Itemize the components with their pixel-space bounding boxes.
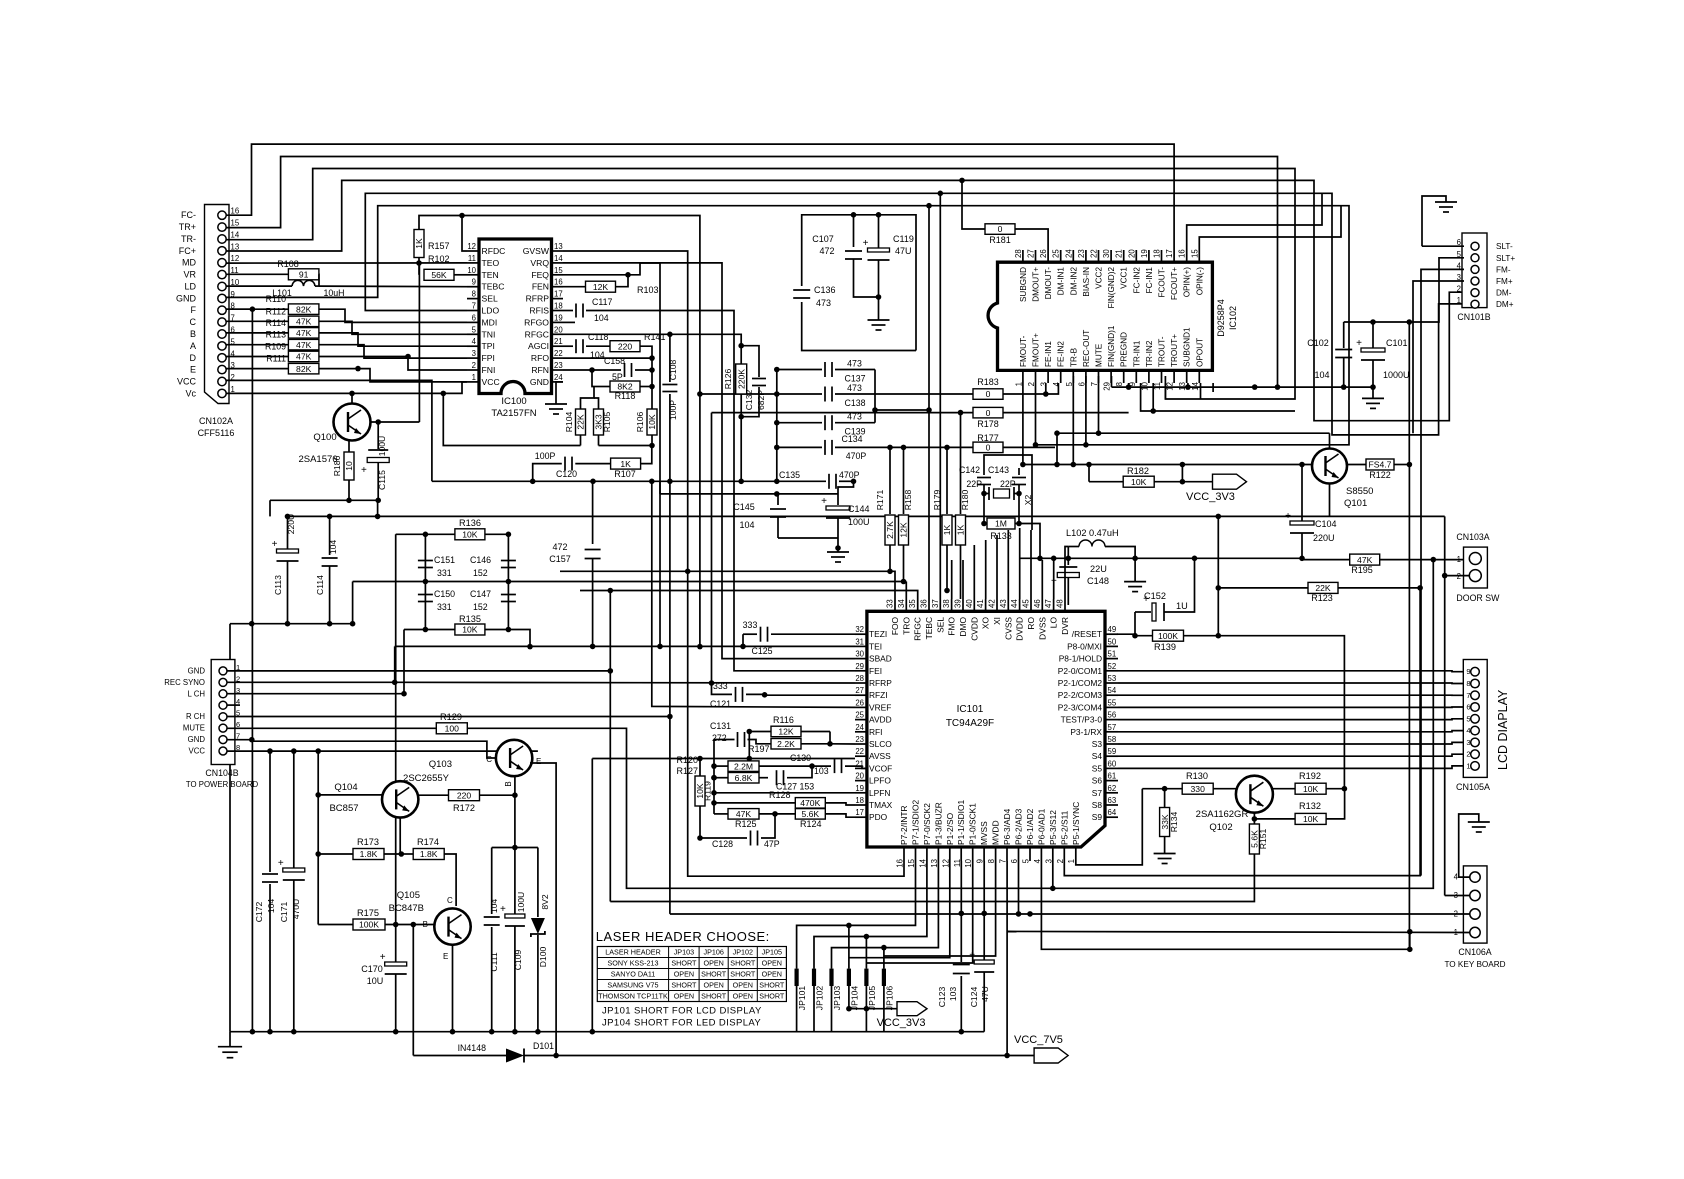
svg-text:45: 45 [1022,599,1031,608]
svg-text:R118: R118 [615,391,636,401]
resistor R180 1K [960,413,962,514]
capacitor C131 272 [714,739,735,741]
svg-text:LASER HEADER CHOOSE:: LASER HEADER CHOOSE: [596,929,770,944]
svg-text:47P: 47P [764,839,780,849]
svg-text:22: 22 [554,349,563,358]
CN104B pin 3 L CH [219,690,227,698]
wire CN104B pin2 REC SYNO to FEI [227,681,395,683]
svg-text:104: 104 [489,899,499,914]
fuse resistor R122 FS4.7 [1347,464,1367,466]
IC100 pin 23 RFN [552,369,564,371]
svg-text:R132: R132 [1299,801,1321,811]
CN102A pin 13 (FC+) [218,247,226,255]
resistor R109 47K [226,356,289,358]
svg-text:RFIS: RFIS [529,306,549,316]
wire rail y444 segment [1036,444,1184,446]
svg-text:C151: C151 [434,555,455,565]
svg-text:C102: C102 [1307,338,1329,348]
CN102A pin 2 (VCC) [218,377,226,385]
svg-text:P8-0/MXI: P8-0/MXI [1067,641,1102,651]
connector CN105A [1463,660,1487,778]
svg-text:24: 24 [1064,249,1073,258]
IC101 pin 30 SBAD [855,658,867,660]
svg-text:20: 20 [554,325,563,334]
svg-text:FIN(GND)1: FIN(GND)1 [1107,325,1116,367]
svg-text:56K: 56K [431,270,447,280]
IC101 pin 38 FMO [951,599,953,611]
IC102 pin 7 MUTE [1098,370,1100,383]
IC102 pin 3 FE-IN1 [1047,370,1049,383]
svg-text:GND: GND [188,666,206,675]
svg-text:37: 37 [931,599,940,608]
svg-text:0: 0 [986,443,991,453]
inductor L101 10uH [226,285,292,287]
wire CN104B pin4 stub [227,704,240,706]
svg-text:12: 12 [231,254,240,263]
IC102 pin 4 FE-IN2 [1060,370,1062,383]
IC101 pin 32 TEZI [855,633,867,635]
wire Q101 collector up [1329,433,1331,448]
IC101 pin 41 XO [985,599,987,611]
svg-text:61: 61 [1108,772,1117,781]
capacitor C128 47P [700,837,747,839]
svg-text:CN105A: CN105A [1456,782,1490,792]
resistor R178 0 [712,412,974,414]
svg-text:19: 19 [554,313,563,322]
svg-text:+: + [278,858,284,869]
svg-text:103: 103 [948,987,958,1002]
ground top right [1422,196,1446,246]
svg-text:62: 62 [1108,784,1117,793]
svg-text:2.2K: 2.2K [777,739,795,749]
wire MD pin12 to TEO [226,262,467,264]
svg-text:IC102: IC102 [1228,306,1238,330]
CN101B pin 6 SLT- [1471,242,1479,250]
diode D101 IN4148 line [413,1055,506,1057]
IC100 pin 4 TPI [467,345,479,347]
resistor R133 1M [987,518,1015,529]
wire CN103A col down to CN106A pin3 [1444,576,1446,896]
wire AVSS line [592,758,855,760]
wire RFGC pin20 to R126 col [563,334,741,345]
CN104B pin 1 GND [219,667,227,675]
IC102 pin 14 OPOUT [1198,370,1200,383]
svg-text:E: E [443,952,448,961]
svg-text:Q105: Q105 [397,890,420,901]
wire bus pin15 [226,157,1278,388]
svg-text:OPEN: OPEN [674,992,694,1001]
svg-text:C138: C138 [844,398,865,408]
resistor R110 82K [226,308,289,310]
power flag VCC_3V3 bottom [897,1002,927,1016]
CN102A pin 7 (C) [218,318,226,326]
crystal X2 caps C142 C143 [983,468,985,475]
rail vcc y516 [288,515,1445,517]
svg-text:C172: C172 [254,902,264,923]
resistor R123 22K [1218,587,1308,589]
svg-text:1K: 1K [620,459,631,469]
capacitor C157 472 [592,481,594,544]
microcontroller IC101 TC94A29F body [867,611,1105,847]
IC100 pin 11 TEO [467,262,479,264]
IC102 pin 26 DMOUT- [1047,250,1049,262]
wire IC101 pin54 to CN105A pin7 [1118,694,1471,696]
svg-text:OPOUT: OPOUT [1195,338,1204,367]
svg-text:S7: S7 [1092,788,1103,798]
IC101 pin 39 DMO [962,599,964,611]
svg-text:R175: R175 [357,908,379,918]
svg-text:47K: 47K [736,809,752,819]
svg-text:7: 7 [472,302,476,311]
svg-text:S6: S6 [1092,776,1103,786]
svg-text:5: 5 [472,325,477,334]
svg-text:C119: C119 [893,234,914,244]
wire filter right column [507,534,509,629]
svg-text:DMOUT-: DMOUT- [1044,267,1053,300]
wire pin2 VCC down [226,380,432,481]
IC100 pin 24 GND [552,381,564,383]
IC102 pin 5 TR-B [1072,370,1074,383]
ground below L102 [1134,558,1136,581]
jumper JP106 [882,969,886,986]
svg-text:22P: 22P [966,479,982,489]
svg-text:TRO: TRO [901,617,911,635]
svg-text:TEI: TEI [869,641,882,651]
IC100 pin 19 RFGO [552,321,564,323]
IC102 pin 21 VCC1 [1123,250,1125,262]
IC101 pin 28 RFRP [855,682,867,684]
IC101 pin 49 /RESET [1105,633,1118,635]
svg-text:TR+: TR+ [179,222,196,232]
IC102 pin 22 VCC2 [1098,250,1100,262]
power flag VCC_3V3 [1213,474,1247,489]
svg-text:48: 48 [1056,599,1065,608]
svg-text:+: + [380,952,386,963]
capacitor C107 472 [853,215,855,247]
wire R127 column [713,766,715,814]
resistor R186 10 [348,439,350,452]
svg-text:SEL: SEL [935,617,945,633]
IC101 pin 37 SEL [939,599,941,611]
wire c136 bottom hook [802,302,916,351]
svg-text:R122: R122 [1369,470,1391,480]
wire IC102 pin2 stub down [1035,383,1037,445]
rail y494 [660,493,838,495]
svg-text:VCC_3V3: VCC_3V3 [877,1017,926,1029]
svg-text:0: 0 [998,224,1003,234]
svg-text:CN103A: CN103A [1456,532,1489,542]
svg-text:12K: 12K [593,282,609,292]
svg-text:P5-1/SYNC: P5-1/SYNC [1071,802,1081,845]
IC101 pin 21 VCOF [855,767,867,769]
svg-text:C111: C111 [489,952,499,971]
capacitor C127 153 [776,770,778,785]
svg-text:16: 16 [1178,249,1187,258]
svg-text:11: 11 [1153,382,1162,390]
svg-text:29: 29 [1103,382,1112,391]
CN102A pin 4 (D) [218,354,226,362]
svg-text:2: 2 [472,361,476,370]
CN102A pin 5 (A) [218,342,226,350]
svg-text:17: 17 [855,808,864,817]
svg-text:SHORT: SHORT [701,992,727,1001]
resistor R134 33K [1164,789,1166,808]
IC101 pin 23 SLCO [855,743,867,745]
svg-text:CN102A: CN102A [199,416,233,426]
svg-text:17: 17 [554,290,563,299]
IC102 pin 6 REC-OUT [1085,370,1087,383]
resistor R119 10K [699,759,701,777]
svg-text:333: 333 [743,620,758,630]
IC101 pin 36 TEBC [928,599,930,611]
wire filter left column [424,534,426,629]
svg-text:100U: 100U [377,436,387,457]
svg-text:AGCI: AGCI [528,341,549,351]
svg-text:TO KEY BOARD: TO KEY BOARD [1444,960,1505,969]
svg-text:VCC2: VCC2 [1095,267,1104,289]
IC101 pin 60 S5 [1105,767,1118,769]
svg-text:P1-3/BUZR: P1-3/BUZR [933,802,943,845]
svg-text:R158: R158 [903,490,913,511]
svg-text:1K: 1K [942,524,952,535]
IC101 pin 5 P6-1/AD2 [1029,847,1031,861]
svg-text:C144: C144 [848,504,870,514]
svg-text:SONY KSS-213: SONY KSS-213 [607,959,658,968]
svg-text:IN4148: IN4148 [458,1043,486,1053]
crystal X2 [994,489,1010,498]
svg-text:470P: 470P [846,451,867,461]
svg-text:220: 220 [457,790,472,800]
wire pin8 pin12 stubs [1128,383,1130,387]
IC101 pin 57 P3-1/RX [1105,731,1118,733]
IC100 pin 21 AGCI [552,345,564,347]
svg-text:FC+: FC+ [179,246,196,256]
transistor Q100 2SA1576 [334,404,371,441]
svg-text:OPEN: OPEN [762,970,782,979]
svg-text:XO: XO [981,617,991,630]
svg-text:SHORT: SHORT [671,959,697,968]
svg-text:R180: R180 [960,490,970,511]
CN105A pin 6 [1471,703,1480,712]
CN105A pin 9 [1471,667,1480,676]
resistor R182 10K [1089,481,1123,483]
wire IC101 pin59 to CN105A pin2 [1118,754,1471,756]
IC101 pin 45 RO [1030,599,1032,611]
capacitor C114 104 [329,516,331,555]
svg-text:FPI: FPI [482,353,495,363]
svg-text:RFO: RFO [531,353,549,363]
svg-text:SANYO DA11: SANYO DA11 [611,970,656,979]
IC101 pin 52 P2-0/COM1 [1105,670,1118,672]
wire R135 right exit [508,630,530,647]
svg-text:28: 28 [855,674,864,683]
svg-text:R141: R141 [644,332,666,342]
svg-text:472: 472 [552,542,567,552]
svg-text:R119: R119 [703,781,713,801]
wire R122 col x1409 down [1408,465,1410,950]
resistor R171 2.7K [889,447,891,514]
transistor Q104 BC857 [382,781,418,817]
svg-text:SLCO: SLCO [869,739,892,749]
wire R104 bottom rail [443,393,580,445]
IC102 pin 9 TR-IN1 [1135,370,1137,383]
IC101 pin 54 P2-2/COM3 [1105,694,1118,696]
wire ic102 pin11 L [1164,383,1166,399]
capacitor C151 331 [418,560,433,562]
svg-text:10: 10 [344,461,354,471]
wire bus y571 [560,571,895,599]
IC102 pin 23 BIAS-IN [1085,250,1087,262]
wire Q104 base [318,794,382,796]
svg-text:2SA1162GR: 2SA1162GR [1196,809,1249,820]
svg-text:25: 25 [1052,249,1061,258]
capacitor C118 104 [563,345,573,347]
wire vcc3v3 stub [1182,465,1212,482]
svg-text:473: 473 [847,359,862,369]
svg-text:C113: C113 [273,575,283,595]
svg-text:P7-2/INTR: P7-2/INTR [899,805,909,845]
transistor Q103 2SC2655Y [496,740,532,776]
svg-text:82K: 82K [296,364,312,374]
svg-text:C124: C124 [969,987,979,1008]
wire Q103 base down [514,776,516,914]
svg-text:VRQ: VRQ [530,258,549,268]
svg-text:AVDD: AVDD [869,715,892,725]
IC101 pin 51 P8-1/HOLD [1105,658,1118,660]
ground below IC100 [556,382,563,404]
capacitor C136 473 [793,289,810,291]
svg-text:1000U: 1000U [1383,370,1410,380]
svg-text:25: 25 [855,711,864,720]
svg-text:R183: R183 [977,377,999,387]
svg-text:2: 2 [1457,285,1461,294]
svg-text:TR-B: TR-B [1069,347,1078,367]
capacitor C170 10U electrolytic [395,925,397,963]
svg-text:C148: C148 [1087,576,1109,586]
IC102 pin 10 TR-IN2 [1148,370,1150,383]
wire IC101 pin53 to CN105A pin8 [1118,682,1471,685]
wire VR pin11 to R108 [226,273,289,275]
wire y623 right hook [352,582,354,624]
svg-text:F: F [191,305,197,315]
svg-text:2.2M: 2.2M [734,761,753,771]
svg-text:+: + [272,539,278,550]
svg-text:R107: R107 [614,469,636,479]
IC101 pin 58 S3 [1105,743,1118,745]
wire Q104 collector down [399,818,401,854]
wire pin29 to rail [1111,376,1113,387]
svg-text:+: + [1356,338,1362,349]
CN102A pin 14 (TR-) [218,235,226,243]
svg-text:SAMSUNG V75: SAMSUNG V75 [607,981,658,990]
svg-text:S8: S8 [1092,800,1103,810]
IC102 pin 16 OPIN(+) [1186,250,1188,262]
IC100 pin 22 RFO [552,357,564,359]
svg-text:41: 41 [976,599,985,608]
IC101 pin 56 TEST/P3-0 [1105,719,1118,721]
wire LPFN line [714,792,855,794]
svg-text:FEI: FEI [869,666,882,676]
wire JP104 to VCC_3V3 flag [849,1008,897,1010]
wire col 722 VRQ to SBAD [563,263,855,659]
capacitor C124 47U electrolytic [983,861,985,960]
svg-text:OPEN: OPEN [704,959,724,968]
capacitor C172 104 [269,751,271,872]
svg-text:27: 27 [1027,249,1036,258]
svg-text:SLT-: SLT- [1496,242,1513,251]
capacitor C144 100U electrolytic [838,481,854,505]
svg-text:1: 1 [472,373,476,382]
wire CN101B col down [1408,322,1410,465]
transistor Q101 S8550 [1312,449,1347,484]
svg-text:LD: LD [184,282,196,292]
svg-text:32: 32 [855,625,864,634]
svg-text:2: 2 [1457,572,1461,581]
wire CVDD col [973,545,975,599]
svg-text:RO: RO [1026,617,1036,630]
svg-text:1: 1 [1457,555,1461,564]
svg-text:SBAD: SBAD [869,654,892,664]
svg-text:R108: R108 [277,259,299,269]
IC101 pin 53 P2-1/COM2 [1105,682,1118,684]
svg-text:C108: C108 [668,360,678,381]
svg-text:R111: R111 [266,354,286,364]
wire R130 left L down to pin1 sync [1076,789,1143,865]
svg-text:DVSS: DVSS [1037,617,1047,640]
svg-text:C115: C115 [377,470,387,490]
wire col 940 SEL to bus line5 [939,193,941,599]
svg-text:JP104 SHORT FOR LED DISPLAY: JP104 SHORT FOR LED DISPLAY [602,1018,761,1029]
svg-text:47U: 47U [895,246,912,256]
CN104B pin 8 VCC [219,747,227,755]
resistor R158 12K [903,447,905,514]
wire bus y590 [580,591,918,600]
IC101 pin 42 XI [996,599,998,611]
svg-text:39: 39 [954,599,963,608]
svg-text:P8-1/HOLD: P8-1/HOLD [1059,654,1102,664]
IC102 pin 20 FC-IN2 [1135,250,1137,262]
rail ground y623 [230,623,353,625]
svg-text:R177: R177 [977,433,999,443]
IC101 pin 4 P6-0/AD1 [1040,847,1042,861]
svg-text:DMO: DMO [958,617,968,637]
wire Q105 emitter down [452,945,454,1032]
resistor R177 0 [973,442,1003,453]
wire col 669 down to pin2 line [669,481,671,914]
svg-text:DM+: DM+ [1496,300,1514,309]
svg-text:P6-0/AD1: P6-0/AD1 [1036,808,1046,845]
svg-text:4: 4 [1052,381,1061,386]
svg-text:P7-0/SCK2: P7-0/SCK2 [922,803,932,845]
IC100 pin 9 TEBC [467,286,479,288]
wire pin4 col wrap y949 [1041,861,1409,949]
svg-text:R171: R171 [875,490,885,511]
svg-text:19: 19 [855,784,864,793]
IC100 pin 1 VCC [467,381,479,383]
svg-text:+: + [969,950,975,961]
svg-text:DVR: DVR [1060,617,1070,635]
svg-text:P1-1/SDIO1: P1-1/SDIO1 [956,800,966,845]
svg-text:JP102: JP102 [733,948,753,957]
wire CN101B pin4 long vertical [1421,269,1464,875]
svg-text:23: 23 [855,735,864,744]
ground bottom left [229,1032,231,1047]
IC101 pin 16 P7-2/INTR [903,847,905,861]
svg-text:TNI: TNI [482,329,496,339]
wire pin5 col to CN106A pin2 line [1018,861,1020,914]
svg-text:VCC: VCC [177,377,197,387]
svg-text:220K: 220K [736,369,746,389]
